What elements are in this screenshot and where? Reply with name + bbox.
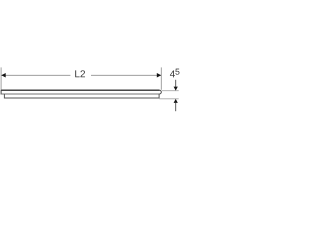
L2 dimension line (left segment)	[1, 74, 70, 76]
4.5 dimension: lower extension line	[159, 98, 178, 100]
L2 dimension: right extension line	[160, 67, 162, 89]
L2 label	[75, 70, 85, 77]
L2 left arrowhead	[1, 73, 5, 78]
L2 dimension line (right segment)	[91, 74, 161, 76]
flange (lower plate)	[4, 94, 159, 98]
bar/flange mid line	[1, 93, 160, 95]
bar top edge (thicker dark line)	[1, 89, 159, 91]
4.5 dimension: lower arrowhead (points up)	[174, 99, 178, 103]
4.5 dimension: lower tail line	[175, 103, 177, 111]
4.5 label: "4"	[170, 70, 175, 77]
L2 right arrowhead	[157, 73, 161, 78]
4.5 dimension: upper arrowhead (points down)	[174, 87, 178, 91]
4.5 dimension: upper tail line	[175, 80, 177, 87]
profile bar body (top, rounded right end)	[1, 90, 161, 94]
4.5 label: superscript "5"	[175, 69, 179, 75]
L2 dimension: left extension line	[0, 67, 2, 89]
4.5 dimension: upper extension line	[162, 90, 179, 92]
